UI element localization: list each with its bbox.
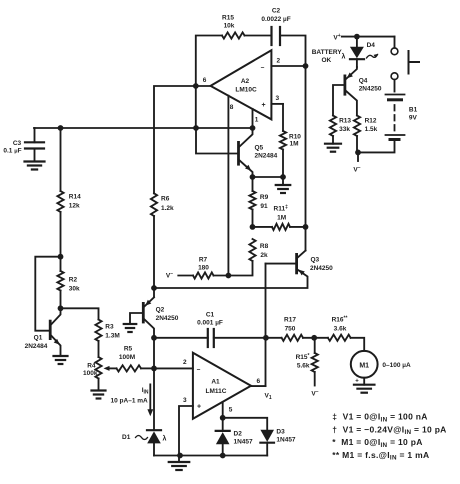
svg-text:1.5k: 1.5k	[365, 126, 378, 133]
svg-text:1N457: 1N457	[276, 437, 296, 444]
resistor R3 1.3M	[95, 320, 119, 358]
transistor Q3 2N4250	[266, 251, 334, 276]
svg-text:91: 91	[260, 203, 268, 210]
svg-text:1M: 1M	[290, 141, 299, 148]
svg-text:λ: λ	[163, 435, 167, 443]
node C1 left / Q2 collector	[151, 335, 157, 341]
wire R16 to meter	[351, 338, 365, 351]
annotation IIN current arrow	[111, 384, 154, 416]
svg-text:OK: OK	[322, 57, 332, 64]
capacitor C2 0.0022uF	[261, 8, 290, 46]
svg-text:6: 6	[257, 378, 261, 385]
svg-text:3: 3	[276, 95, 280, 102]
potentiometer R4 100k	[83, 357, 102, 391]
svg-text:+: +	[197, 404, 201, 411]
resistor R13 33k	[330, 116, 352, 144]
note 1	[332, 412, 427, 424]
ground at Q2 base	[124, 324, 137, 332]
resistor R6 1.2k	[151, 193, 174, 216]
wire pin5 to D3	[223, 418, 268, 430]
ground below meter	[354, 385, 375, 393]
svg-text:R15: R15	[222, 15, 234, 22]
svg-text:0.1 μF: 0.1 μF	[3, 147, 21, 154]
svg-text:D1: D1	[122, 434, 131, 441]
svg-text:R5: R5	[124, 346, 133, 353]
wire C2 right to inverting rail	[280, 36, 306, 67]
battery B1 9V	[358, 95, 418, 153]
svg-text:−: −	[197, 366, 201, 373]
svg-text:+: +	[261, 102, 265, 109]
svg-text:A2: A2	[241, 78, 250, 85]
node A2 pin6	[193, 83, 211, 89]
wire Q3 emitter line	[154, 269, 308, 288]
svg-text:C1: C1	[206, 312, 215, 319]
svg-text:M1: M1	[359, 362, 369, 369]
wire bias rail horizontal	[34, 125, 253, 131]
svg-text:10k: 10k	[224, 23, 235, 30]
resistor R10 1M	[280, 104, 301, 177]
node Q1 collector	[58, 305, 64, 311]
node V- battery	[355, 150, 361, 162]
wire A2 pin8 down	[227, 96, 229, 276]
wire R3 top	[61, 308, 99, 319]
node R2 top	[58, 254, 64, 260]
wire A2 pin6 left to R6 rail	[154, 86, 196, 193]
svg-text:12k: 12k	[69, 203, 80, 210]
svg-text:3: 3	[183, 397, 187, 404]
wire A2 pin2 to rail	[271, 63, 308, 69]
LED D4	[342, 37, 380, 67]
svg-text:R13: R13	[339, 118, 351, 125]
meter M1 0-100uA	[351, 351, 411, 385]
svg-text:BATTERY: BATTERY	[312, 49, 343, 56]
wiper arrow of R4 to R5	[104, 366, 117, 371]
svg-text:Q1: Q1	[34, 335, 43, 342]
ground below R4	[92, 391, 106, 399]
svg-text:Q4: Q4	[359, 77, 368, 84]
ground below R10	[276, 177, 291, 193]
svg-text:100M: 100M	[119, 354, 135, 361]
label V- below R15b	[311, 389, 318, 398]
label BATTERY OK	[312, 49, 343, 64]
switch S1 pushbutton	[391, 48, 419, 80]
resistor R11 1M	[253, 205, 306, 230]
svg-text:R6: R6	[161, 195, 170, 202]
capacitor C3 0.1uF	[3, 128, 44, 162]
wire Q5 emitter node to R10 foot	[250, 174, 286, 180]
svg-text:2N4250: 2N4250	[310, 265, 333, 272]
svg-text:1N457: 1N457	[234, 439, 254, 446]
wire Q3 base down to output node	[265, 264, 267, 387]
svg-text:Q2: Q2	[156, 307, 165, 314]
ground main	[169, 456, 190, 471]
svg-text:5.6k: 5.6k	[297, 363, 310, 370]
svg-text:2: 2	[277, 58, 281, 65]
svg-text:2N4250: 2N4250	[156, 315, 179, 322]
svg-text:C3: C3	[13, 140, 22, 147]
svg-text:2N4250: 2N4250	[359, 86, 382, 93]
op-amp A2 LM10C	[203, 50, 281, 123]
wire A2 pin3 to R10	[271, 103, 283, 105]
svg-text:5: 5	[229, 407, 233, 414]
transistor Q1 2N2484	[25, 308, 62, 356]
svg-text:750: 750	[285, 326, 296, 333]
capacitor C1 0.001uF	[154, 312, 266, 347]
transistor Q4 2N4250	[333, 67, 382, 116]
wire left loop to Q1 base	[35, 257, 60, 331]
svg-text:6: 6	[203, 77, 207, 84]
wire summing node down to D1	[153, 368, 155, 428]
svg-text:R15*: R15*	[296, 353, 310, 361]
note 2	[332, 424, 446, 436]
wire A1 pin3 to ground rail	[179, 406, 193, 456]
svg-text:2k: 2k	[260, 252, 268, 259]
ground below R13	[325, 144, 341, 152]
svg-text:−: −	[261, 64, 265, 71]
svg-text:D2: D2	[234, 430, 243, 437]
svg-text:1.3M: 1.3M	[105, 333, 119, 340]
svg-text:LM10C: LM10C	[235, 87, 257, 94]
svg-text:180: 180	[198, 265, 209, 272]
svg-text:R2: R2	[69, 277, 78, 284]
wire V+ to switch	[342, 34, 395, 48]
svg-text:2N2484: 2N2484	[25, 343, 48, 350]
ground below C3	[25, 162, 45, 170]
svg-text:LM11C: LM11C	[206, 388, 227, 395]
svg-text:30k: 30k	[69, 286, 80, 293]
wire Q5 base from bias rail	[196, 128, 239, 154]
svg-text:R3: R3	[105, 324, 114, 331]
svg-text:R4: R4	[87, 363, 96, 370]
svg-text:3.6k: 3.6k	[334, 326, 347, 333]
diode D2 1N457	[216, 418, 253, 456]
wire inverting rail down	[305, 66, 307, 251]
svg-text:10 pA–1 mA: 10 pA–1 mA	[111, 398, 149, 405]
resistor R2 30k	[57, 257, 80, 309]
wire C1 node down to summing node	[151, 338, 157, 372]
svg-text:Q5: Q5	[255, 144, 264, 151]
svg-text:R7: R7	[199, 257, 208, 264]
wire R15 to C2	[245, 35, 272, 37]
svg-text:B1: B1	[409, 107, 418, 114]
svg-text:100k: 100k	[83, 370, 98, 377]
svg-text:0.001 μF: 0.001 μF	[197, 320, 223, 327]
svg-text:R12: R12	[365, 118, 377, 125]
resistor R8 2k	[228, 239, 268, 276]
svg-text:Q3: Q3	[311, 256, 320, 263]
svg-text:D4: D4	[367, 42, 376, 49]
svg-text:8: 8	[230, 104, 234, 111]
label V+ top	[333, 33, 340, 42]
wire A1 pin5 down	[220, 402, 226, 421]
svg-text:2N2484: 2N2484	[255, 153, 278, 160]
svg-text:C2: C2	[272, 8, 281, 15]
node R11 right on rail	[303, 224, 309, 230]
node R7/R8/pin8	[226, 273, 232, 279]
svg-text:R14: R14	[69, 194, 81, 201]
wire V- to R7	[166, 271, 193, 280]
ground below Q1 emitter	[54, 356, 68, 364]
resistor R16 3.6k	[328, 316, 351, 341]
svg-text:R17: R17	[284, 317, 296, 324]
resistor R9 91	[249, 177, 268, 227]
svg-text:2: 2	[183, 359, 187, 366]
transistor Q2 2N4250	[130, 297, 179, 338]
wire A2 pin6 down to bias rail	[195, 86, 197, 128]
svg-text:33k: 33k	[339, 126, 350, 133]
svg-text:R9: R9	[260, 194, 269, 201]
wire feedback top-left from A2 output node up and right to R15	[196, 36, 222, 87]
resistor R7 180	[193, 257, 228, 279]
note 4	[332, 450, 429, 462]
svg-text:1.2k: 1.2k	[161, 205, 174, 212]
wire analog ground rail	[154, 453, 267, 459]
svg-text:9V: 9V	[409, 115, 418, 122]
wire A1 output	[251, 385, 266, 387]
resistor R5 100M	[117, 346, 142, 372]
svg-text:0–100 μA: 0–100 μA	[382, 362, 411, 369]
node output/C1/R17	[263, 335, 269, 341]
svg-text:R8: R8	[260, 243, 269, 250]
resistor R14 12k	[57, 128, 81, 257]
transistor Q5 2N2484	[239, 128, 278, 177]
svg-text:A1: A1	[211, 379, 220, 386]
wire R6 to Q2 emitter node	[151, 216, 157, 297]
wire R17 to junction	[303, 335, 328, 341]
svg-text:1: 1	[255, 117, 259, 124]
resistor R12 1.5k	[354, 116, 378, 153]
node R9/R11/R8	[250, 224, 256, 230]
wire output node to R17	[266, 337, 282, 339]
svg-text:1M: 1M	[277, 215, 286, 222]
svg-text:R10: R10	[289, 134, 301, 141]
wire switch to battery	[394, 80, 396, 92]
wire meter to ground	[363, 378, 365, 385]
resistor R17 750	[282, 317, 303, 341]
label V- battery	[353, 165, 360, 174]
resistor R15b 5.6k	[296, 338, 318, 386]
svg-text:λ: λ	[342, 53, 346, 61]
diode D3 1N457	[260, 429, 296, 456]
note 3	[332, 437, 422, 449]
wire R5 to summing node	[141, 367, 154, 369]
wire summing node to A1 pin2	[154, 367, 193, 369]
op-amp A1 LM11C	[183, 353, 272, 419]
wire A2 pin1 down	[250, 109, 256, 131]
resistor R15 10k	[222, 15, 245, 39]
diode D1 photodiode	[122, 430, 167, 455]
svg-text:D3: D3	[276, 429, 285, 436]
svg-text:0.0022 μF: 0.0022 μF	[261, 16, 290, 23]
